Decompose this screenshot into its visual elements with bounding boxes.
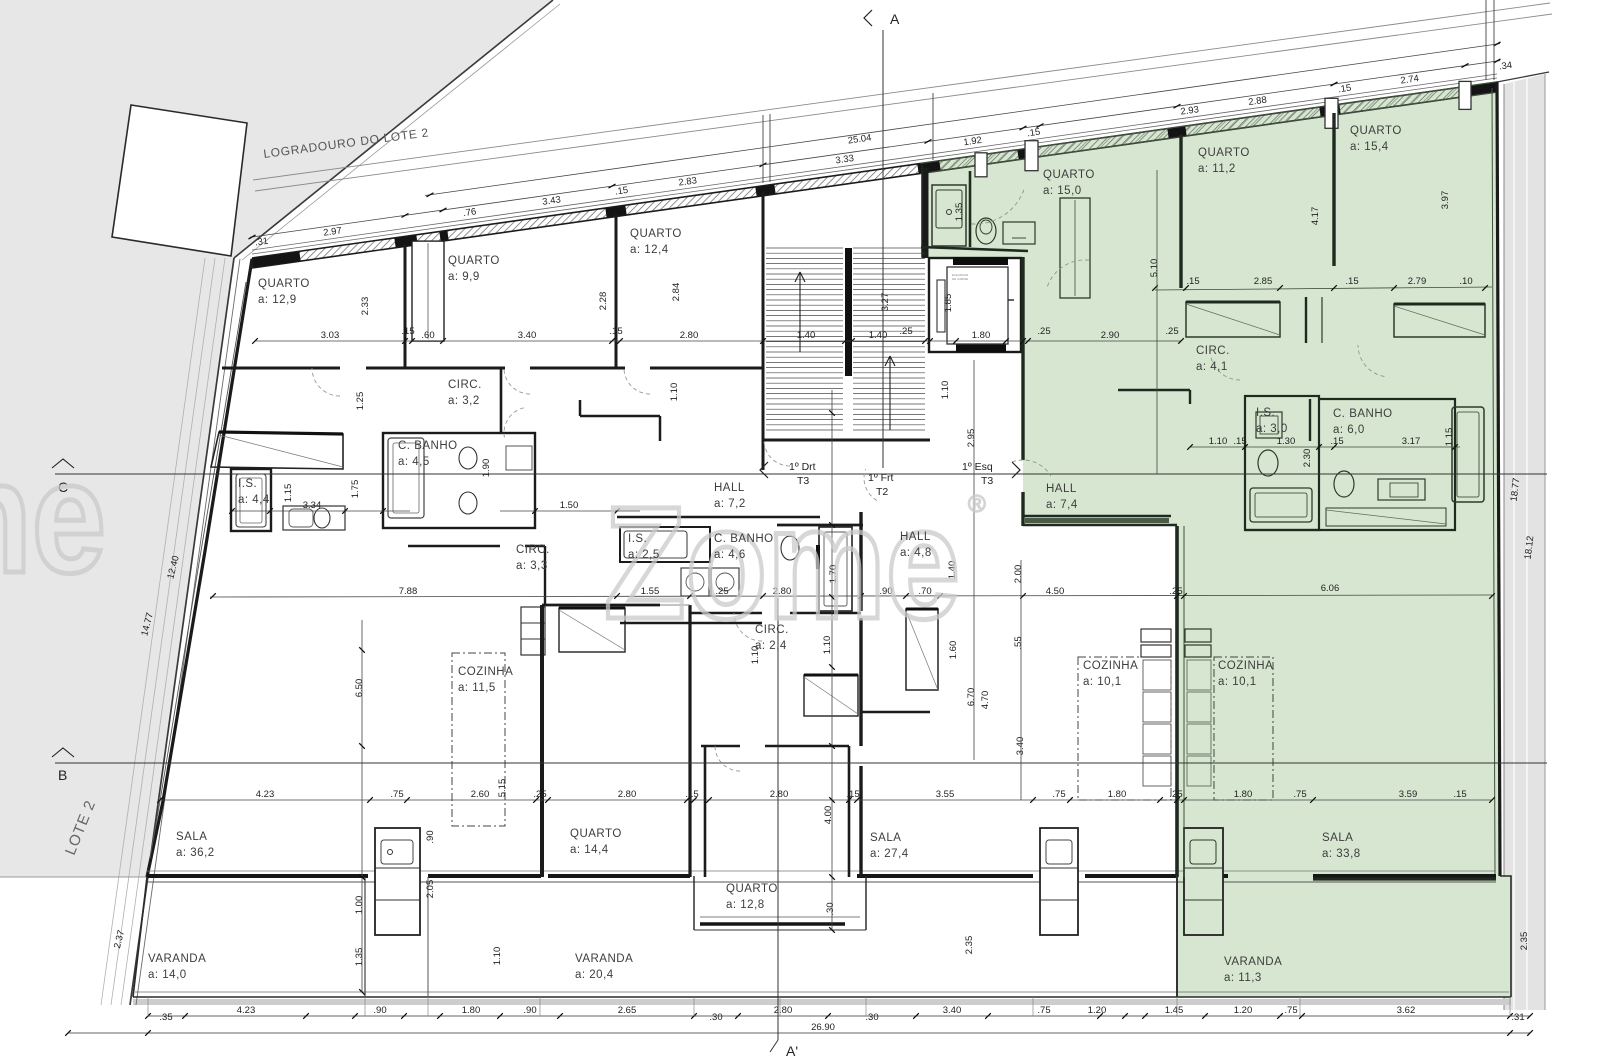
svg-text:1.25: 1.25 [355,392,366,411]
shower black bar [816,545,820,569]
T2 counter column c [1143,724,1171,754]
dim tick green [1152,285,1158,291]
dim tick 511 [342,508,348,514]
window jamb piece 1 [975,153,987,177]
svg-text:1.10: 1.10 [492,947,503,966]
dim tick top [1494,59,1501,63]
top wall pier 10 [1462,87,1497,92]
svg-text:VARANDA: VARANDA [575,953,633,965]
window jamb piece 3 [1325,98,1338,128]
south facade wall segment 7 [1085,874,1177,878]
T2 hall south wall [777,524,863,527]
dim tick top [440,208,447,212]
green bath floor wall [921,247,1028,251]
dim tick 800 [533,797,539,803]
top wall pier 2 [395,240,417,243]
svg-text:6.70: 6.70 [966,688,977,707]
closet top edge thick [219,432,343,434]
svg-text:a: 3,3: a: 3,3 [516,560,548,572]
dim tick mid [1178,338,1184,344]
svg-text:1.80: 1.80 [1234,789,1253,800]
svg-text:.75: .75 [390,789,403,800]
dim tick b1 [352,1013,358,1019]
top wall pier 1 [252,256,300,263]
dim tick b1 [1142,1013,1148,1019]
svg-text:a: 14,4: a: 14,4 [570,844,609,856]
door arc CIRC 2,4 [734,613,762,641]
hall 7,2 north wall [580,415,660,418]
dim tick b1 [182,1013,188,1019]
dim tick mid [617,338,623,344]
dim tick b1 [1122,1013,1128,1019]
svg-text:3.27: 3.27 [880,293,891,312]
dim tick b1 [735,1013,741,1019]
green C.BANHO counter basin [1390,483,1418,497]
dim tick green [1482,285,1488,291]
CIRC 2,4 top wall b [790,612,861,614]
wall right of QUARTO 12,4 / stair block left [762,192,765,440]
svg-text:.15: .15 [614,185,629,198]
C.BANHO 4,5 room box [383,433,535,528]
svg-text:2.85: 2.85 [1254,276,1273,287]
washbasin sq 2 [711,568,739,596]
svg-text:2.84: 2.84 [671,283,682,302]
green counter cell a [1187,660,1211,690]
appliance stack cell [521,622,545,624]
kitchen counter divider2 [375,867,420,869]
svg-text:.75: .75 [1284,1005,1297,1016]
svg-text:2.35: 2.35 [964,936,975,955]
svg-text:SALA: SALA [870,832,901,844]
top wall pier 3 [440,235,448,236]
svg-text:a: 2,5: a: 2,5 [628,549,660,561]
green shaft inner [1074,200,1076,296]
south facade wall segment 8 [1184,874,1228,878]
bathtub inner I.S. 4,4 [240,478,262,523]
svg-text:.15: .15 [1026,127,1041,140]
elevator rail left [937,280,945,332]
corridor wall under bedrooms d [650,367,763,370]
top dim chain line 2 [425,44,1500,196]
dim tick 800 [1181,797,1187,803]
svg-text:.34: .34 [1498,60,1513,73]
dim tick b1 [1202,1013,1208,1019]
dim tick b2d [1527,1030,1533,1036]
green wall QUARTO 15,0 / 11,2 [1179,135,1182,288]
bottom dim line 1 [148,1015,1530,1017]
green bath sink cabinet [932,185,966,246]
svg-text:C. BANHO: C. BANHO [398,440,458,452]
closet QUARTO 12,9 [211,432,343,469]
dim tick b1 [557,1013,563,1019]
dim tick x362 [359,743,365,749]
wall kitchen top [544,546,546,605]
green bath toilet [976,218,996,244]
section line B [55,762,1547,764]
elevator door bar top [953,257,1008,265]
T2 niche wall [861,711,930,713]
svg-text:HALL: HALL [1046,483,1077,495]
green hatch closet below bath [1326,508,1446,526]
svg-text:a: 33,8: a: 33,8 [1322,848,1361,860]
dim tick mid [609,338,615,344]
hall 7,2 west stub [579,400,582,416]
svg-text:COZINHA: COZINHA [458,666,513,678]
bidet C.BANHO 4,5 [459,492,477,514]
bottom extension line [1176,997,1178,1016]
lot diagonal boundary top-left [234,0,553,258]
stair treads [766,247,843,249]
top wall pier 6 [918,166,940,169]
svg-text:SALA: SALA [1322,832,1353,844]
lot boundary survey line 1 [121,258,225,1005]
dim tick 511 [532,508,538,514]
dim tick b1 [1277,1013,1283,1019]
svg-text:6.50: 6.50 [354,679,365,698]
svg-text:4.17: 4.17 [1310,207,1321,226]
svg-text:a: 36,2: a: 36,2 [176,847,215,859]
corridor wall under bedrooms c [530,367,625,370]
dim tick b1 [985,1013,991,1019]
chain511 line a [232,510,410,512]
logradouro boundary line lower [255,14,1552,191]
dim tick b1 [913,1013,919,1019]
window jamb piece 4 [1459,81,1471,109]
dim tick top [249,235,256,239]
svg-text:a: 15,4: a: 15,4 [1350,141,1389,153]
dim tick mid [252,338,258,344]
door arc hall green [1012,460,1051,476]
svg-text:a: 3,0: a: 3,0 [1256,423,1288,435]
dim extension right [932,93,934,160]
svg-text:1.40: 1.40 [869,330,888,341]
bedroom bay sill thick [700,922,845,926]
dim tick b2b [1507,1030,1513,1036]
svg-text:2.80: 2.80 [774,1005,793,1016]
svg-text:2.30: 2.30 [1302,449,1313,468]
stair up arrow 1 head [800,272,805,282]
bottom extension line [1032,997,1034,1016]
dim tick x832 [829,594,835,600]
green party wall inner line [1183,526,1185,877]
lot boundary line left inner [136,259,240,1005]
COZINHA 11,5 dashed zone [452,653,505,826]
svg-text:3.40: 3.40 [1015,737,1026,756]
green bath bidet cross [1012,237,1026,239]
door arc green banho [1358,345,1384,377]
green I.S. tub [1250,488,1312,522]
green kitchen sink [1190,840,1216,864]
shaft beside QUARTO 9,9 [412,241,444,341]
wall CIRC 3,2 vertical [500,368,503,433]
dim tick top [760,163,767,167]
green dim chain line [1155,287,1492,290]
svg-text:3.97: 3.97 [1440,191,1451,210]
T2 COZINHA 10,1 dashed zone [1078,657,1171,800]
corridor wardrobe diagonal [804,677,858,714]
svg-text:1.10: 1.10 [669,383,680,402]
bottom extension line [865,997,867,1016]
svg-text:a: 4,8: a: 4,8 [900,547,932,559]
bottom extension line [1509,997,1511,1016]
svg-text:.25: .25 [1169,789,1182,800]
dim tick mid [440,338,446,344]
dim tick b2a [145,1030,151,1036]
green party wall west upper [1021,257,1024,460]
green closet QUARTO 15,4 [1394,304,1485,337]
closet CIRC diagonal [559,610,625,650]
svg-text:QUARTO: QUARTO [1350,125,1402,137]
dim tick top [1020,126,1027,130]
dim tick green [1183,285,1189,291]
svg-text:a: 12,9: a: 12,9 [258,294,297,306]
bedroom bay sill line [694,929,866,931]
right exterior wall [1497,82,1500,876]
dim tick x832 [829,410,835,416]
top dim chain line 1 [250,61,1500,238]
svg-text:1º Esq: 1º Esq [962,461,993,473]
bathtub inner C.BANHO 4,5 [393,443,419,513]
svg-text:1.45: 1.45 [1165,1005,1184,1016]
svg-text:.10: .10 [1459,276,1472,287]
closet diagonal [219,435,343,467]
green closet QUARTO 15,4 diagonal [1394,306,1485,335]
svg-text:SALA: SALA [176,831,207,843]
door arc banho 4,5 [504,407,525,437]
svg-text:1.80: 1.80 [972,330,991,341]
right wall inner line [1492,88,1495,876]
bottom extension line [539,997,541,1016]
svg-text:CIRC.: CIRC. [448,379,482,391]
dim tick b1 [303,1013,309,1019]
elevator door bar bottom [956,344,1006,352]
svg-text:a: 4,5: a: 4,5 [398,456,430,468]
svg-text:T3: T3 [797,475,809,487]
washbasin sq 1 bowl [686,573,704,591]
svg-text:a: 10,1: a: 10,1 [1083,676,1122,688]
svg-text:3.59: 3.59 [1399,789,1418,800]
green C.BANHO bidet [1334,471,1354,497]
bathtub I.S. 4,4 [236,474,266,527]
T2 wardrobe diagonal [906,611,938,690]
svg-text:1.80: 1.80 [462,1005,481,1016]
shaft inner line [427,243,429,339]
dim tick mid [409,338,415,344]
dim tick top [1037,124,1044,128]
washbasin sq 2 bowl [716,573,734,591]
vdim line x832 [831,390,833,930]
svg-text:.90: .90 [373,1005,386,1016]
svg-text:1.15: 1.15 [1444,428,1455,447]
bathtub C.BANHO 4,5 [388,438,424,518]
door arc hall T2 [864,469,877,500]
CIRC 2,4 top wall [690,612,762,614]
dim tick top [1174,104,1181,108]
top wall pier 5 [756,189,775,192]
landing left wall lower [762,440,765,470]
dim tick 800 [367,797,373,803]
svg-text:QUARTO: QUARTO [570,828,622,840]
green party wall long [1175,526,1179,877]
svg-text:1.20: 1.20 [1234,1005,1253,1016]
neighbour building white parallelogram [112,105,247,256]
svg-text:T3: T3 [981,475,993,487]
svg-text:a: 11,3: a: 11,3 [1224,972,1262,984]
dim tick top [609,184,616,188]
svg-text:2.80: 2.80 [770,789,789,800]
green hall corridor stub [1189,390,1191,404]
south facade wall segment 5 [857,874,1033,878]
chain447 line [1190,446,1460,448]
green I.S. toilet [1258,450,1278,476]
shower tub C.BANHO 4,6 [819,527,852,611]
svg-text:2.00: 2.00 [1013,565,1024,584]
dim tick 597 [903,593,909,599]
dim tick 447 [1452,444,1458,450]
dim extension top-right b [1493,0,1495,80]
svg-text:3.17: 3.17 [1402,436,1421,447]
bottom extension line [693,997,695,1016]
svg-text:.76: .76 [462,206,477,219]
svg-text:A: A [890,11,900,27]
section line A bend [770,1040,778,1052]
svg-text:a: 7,2: a: 7,2 [714,498,746,510]
green bath bidet box [1003,222,1035,244]
dim tick mid [953,338,959,344]
dim tick 800 [1310,797,1316,803]
green corridor wall a [1305,297,1307,343]
unit arrow esq [1012,462,1020,478]
svg-text:1.35: 1.35 [354,948,365,967]
dim tick x832 [829,743,835,749]
section line A lower [777,598,779,1040]
green closet QUARTO 11,2 diagonal [1186,304,1280,335]
party wall T3-T2 upper [859,512,862,611]
green hall south wall 2 [1023,524,1177,527]
varanda parapet inner [135,991,1509,993]
south facade wall segment 2 [377,874,420,878]
svg-text:CIRC.: CIRC. [755,624,789,636]
green closet QUARTO 11,2 top thick [1186,301,1280,304]
green COZINHA dashed zone [1214,657,1273,800]
dim tick 800 [846,797,852,803]
dim tick top [402,213,409,217]
green C.BANHO counter [1378,479,1425,500]
elevator cab [947,267,1008,344]
dim tick x832 [829,874,835,880]
dim tick x362 [359,989,365,995]
svg-text:1.20: 1.20 [1088,1005,1107,1016]
svg-text:.30: .30 [709,1012,722,1023]
grey area bottom edge [0,876,148,878]
stair block bottom wall [763,439,930,442]
vdim line x362 [361,620,363,992]
QUARTO 12,8 top wall b [765,745,849,748]
svg-text:.15: .15 [846,789,859,800]
green I.S. basin [1256,412,1282,438]
dim tick b1 [1299,1013,1305,1019]
dim tick x832 [829,664,835,670]
svg-text:2.90: 2.90 [1101,330,1120,341]
lot corner diagonal to strip [1497,72,1549,82]
kitchen sink left [381,840,413,864]
stair up arrow 1 [795,272,800,352]
T2 kitchen sink [1046,840,1072,864]
dim tick 511 [380,508,386,514]
bedroom bay inner line [700,916,860,918]
dim tick top2a [427,193,434,197]
green bath top divider [969,171,972,247]
dim tick b1 [1097,1013,1103,1019]
green I.S. tub inner [1255,493,1307,517]
dim tick mid [849,338,855,344]
green counter divider2 [1184,867,1223,869]
toilet C.BANHO 4,6 [781,536,799,560]
svg-text:CIRC.: CIRC. [1196,345,1230,357]
svg-text:2.33: 2.33 [360,297,371,316]
svg-text:COZINHA: COZINHA [1083,660,1138,672]
svg-text:1.85: 1.85 [943,294,954,313]
svg-text:2.05: 2.05 [425,880,436,899]
kitchen counter block left [375,828,420,935]
section line A upper [882,30,884,468]
wall CIRC 3,3 south [408,545,500,547]
lot boundary survey line 2 [111,258,215,1005]
dim tick 800 [1489,797,1495,803]
svg-text:1.15: 1.15 [283,484,294,503]
svg-text:.75: .75 [1037,1005,1050,1016]
appliance stack cell2 [521,638,545,640]
green bath sink dot [947,210,952,215]
svg-text:.15: .15 [685,789,698,800]
svg-text:C. BANHO: C. BANHO [714,533,774,545]
bedroom bay left wall [693,876,695,930]
dim tick 800 [1157,797,1163,803]
I.S. 4,4 room box [231,469,271,531]
green highlighted apartment T3 1-Esq fill [921,82,1511,997]
T2 counter divider2 [1040,867,1078,869]
dim tick mid [922,338,928,344]
svg-text:1.10: 1.10 [940,381,951,400]
green hall corridor wall [1118,389,1190,391]
svg-text:I.S.: I.S. [238,478,257,490]
top wall pier 4 [606,210,626,213]
svg-text:1.30: 1.30 [1277,436,1296,447]
chain511 line b [500,510,640,512]
dim tick green [1391,285,1397,291]
stair stringer bar [845,248,852,376]
appliance stack [521,607,545,655]
dim tick top [1462,64,1469,68]
varanda divider green [1176,877,1178,997]
svg-text:a: 15,0: a: 15,0 [1043,185,1082,197]
dim tick mid [1020,338,1026,344]
green C.BANHO big tub inner [1457,412,1479,497]
svg-text:I.S.: I.S. [628,533,647,545]
toilet C.BANHO 4,5 [459,447,477,469]
dim tick green [1331,285,1337,291]
T2 kitchen counter block [1040,828,1078,935]
svg-text:.15: .15 [609,326,622,337]
green counter divider [1184,899,1223,901]
section arrow C [52,459,74,468]
unit arrow drt [760,462,768,478]
svg-text:1.75: 1.75 [350,480,361,499]
svg-text:2.65: 2.65 [618,1005,637,1016]
dim tick x362 [359,647,365,653]
svg-text:VARANDA: VARANDA [1224,956,1282,968]
svg-text:a: 20,4: a: 20,4 [575,969,614,981]
